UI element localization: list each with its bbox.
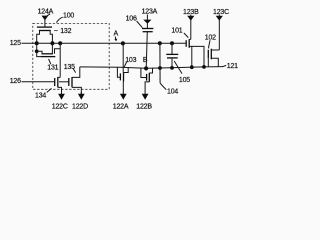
junction dot (capacitor 105 top) — [170, 41, 174, 45]
transistor 103: gate bar — [119, 73, 121, 80]
transistor 101: drain stub — [189, 38, 191, 40]
node B / output wire — [80, 67, 223, 69]
transistor 135: gate bar — [68, 78, 70, 86]
arrow 124A (input arrowhead) — [42, 16, 49, 21]
svg-text:A: A — [114, 31, 119, 38]
transistor 132: left leg — [37, 31, 40, 44]
svg-text:122A: 122A — [113, 104, 129, 111]
wire: node A down to transistor 134 drain — [59, 43, 61, 77]
transistor 134: bottom leg — [58, 87, 62, 94]
transistor 131: left leg — [37, 51, 42, 54]
junction dot — [58, 41, 62, 45]
transistor 103: channel bar — [123, 72, 125, 81]
arrow 123B — [190, 15, 192, 17]
transistor 134: gate bar — [54, 78, 56, 86]
transistor 104: source leg — [145, 82, 149, 94]
wire to capacitor 105 — [171, 43, 173, 54]
svg-text:131: 131 — [47, 64, 58, 71]
leader 131 — [49, 59, 51, 64]
leader 134 — [47, 88, 52, 92]
wire: output wire up to source rail — [191, 46, 193, 67]
svg-text:~: ~ — [54, 28, 58, 35]
svg-text:123C: 123C — [213, 9, 229, 16]
wire 123A to capacitor 106 — [146, 23, 148, 28]
svg-text:102: 102 — [205, 34, 216, 41]
junction dot — [35, 41, 39, 45]
leader 121 — [223, 65, 227, 66]
svg-text:122B: 122B — [136, 104, 152, 111]
leader 124A — [46, 14, 50, 17]
wire: node A down to transistor 103 — [122, 43, 124, 72]
svg-text:124A: 124A — [38, 9, 54, 16]
transistor 135: channel bar — [71, 77, 73, 87]
wire: gate link 134 to 135 — [59, 81, 69, 83]
transistor 101: source leg to output — [189, 46, 204, 67]
transistor 102: drain leg from 123C — [211, 49, 219, 51]
leader 135 — [73, 68, 76, 72]
svg-text:132: 132 — [60, 28, 71, 35]
arrow 122D — [80, 92, 82, 94]
arrow 122C (clock output arrow) — [61, 92, 63, 94]
junction dot — [50, 41, 54, 45]
transistor 131: channel bar — [42, 53, 53, 55]
wire 126 input — [22, 81, 55, 83]
arrow 123C — [218, 15, 220, 17]
arrow 122B — [142, 94, 149, 100]
transistor 135: bottom leg — [72, 87, 81, 94]
transistor 103: gate wire — [117, 67, 120, 77]
svg-text:121: 121 — [227, 63, 238, 70]
transistor 104: gate bar — [146, 74, 148, 81]
transistor 132: channel bar — [39, 30, 51, 32]
capacitor 106: bottom plate — [143, 31, 153, 33]
wire 123B down to transistor 101 — [190, 20, 192, 39]
leader 102 — [208, 40, 210, 48]
leader 101 — [184, 33, 188, 38]
leader 104 — [160, 83, 166, 90]
junction dot on node B wire — [158, 66, 162, 70]
svg-text:123A: 123A — [142, 9, 158, 16]
transistor 135: top leg to node B wire — [72, 67, 80, 78]
transistor 103: drain leg to node B wire — [124, 67, 129, 72]
junction dot (diode connection of 131) — [35, 49, 39, 53]
svg-text:122D: 122D — [72, 104, 88, 111]
wire 123C down to transistor 102 — [218, 20, 220, 50]
svg-text:105: 105 — [179, 77, 190, 84]
dashed box 100 (pulse output circuit) — [33, 23, 109, 89]
transistor 101: gate bar — [185, 40, 187, 47]
transistor 132: right leg — [50, 31, 52, 44]
junction dot — [190, 65, 194, 69]
transistor 104: gate wire — [141, 68, 147, 78]
transistor 101: channel bar — [188, 39, 190, 48]
node B dot — [144, 66, 148, 70]
svg-text:104: 104 — [167, 88, 178, 95]
transistor 131: gate bar — [40, 56, 55, 58]
transistor 102: gate stub to node B — [207, 58, 209, 67]
svg-text:126: 126 — [10, 78, 21, 85]
leader 106 — [137, 21, 143, 28]
svg-text:103: 103 — [125, 57, 136, 64]
transistor 104: channel bar — [148, 73, 150, 82]
svg-text:101: 101 — [171, 28, 182, 35]
wire capacitor 105 to node B wire — [171, 58, 173, 68]
junction dot on node A rail — [158, 41, 162, 45]
svg-text:134: 134 — [35, 93, 46, 100]
transistor 131: gate wire — [37, 51, 41, 56]
arrow 122A — [120, 94, 127, 100]
svg-text:106: 106 — [126, 16, 137, 23]
svg-text:122C: 122C — [52, 104, 68, 111]
capacitor 105: bottom plate — [167, 57, 178, 59]
transistor 134: channel bar — [57, 77, 59, 87]
arrow for node A — [114, 37, 117, 40]
svg-text:100: 100 — [63, 13, 74, 20]
wire capacitor 106 down to node B (crosses node A rail) — [146, 32, 147, 69]
node A dot — [121, 41, 125, 45]
transistor 131: right leg — [51, 43, 53, 54]
transistor 102: source leg to output — [211, 58, 218, 66]
capacitor 105: top plate — [166, 53, 178, 55]
transistor 102: gate bar — [207, 50, 209, 59]
svg-text:B: B — [143, 57, 148, 64]
svg-text:125: 125 — [10, 40, 21, 47]
transistor 103: source leg — [122, 82, 124, 95]
arrow 123A — [146, 15, 148, 20]
leader 103 — [124, 62, 126, 67]
capacitor 106: top plate — [142, 28, 153, 30]
leader for label 100 — [56, 17, 62, 22]
transistor 104: drain leg to node B wire — [149, 68, 152, 73]
junction dot on output wire — [202, 65, 206, 69]
transistor 102: channel bar — [210, 49, 212, 60]
wire 125 / node A rail (left) — [22, 42, 187, 44]
transistor 132: gate bar — [37, 26, 52, 28]
wire: node A rail to node B wire — [159, 43, 161, 83]
junction dot — [170, 66, 174, 70]
transistor 134: top leg to node A line — [58, 76, 60, 78]
wire: 125 node to transistor 131 — [36, 43, 38, 51]
leader 105 — [174, 61, 182, 74]
